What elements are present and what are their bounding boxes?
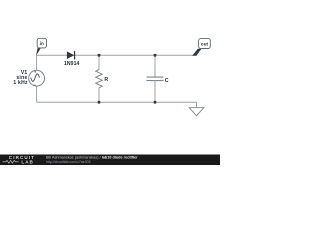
wire left vertical to V1 (36, 55, 38, 70)
svg-text:out: out (201, 41, 209, 46)
CircuitLab logo (3, 155, 36, 165)
svg-text:1N914: 1N914 (64, 61, 80, 67)
ground (189, 102, 204, 116)
net flag in (36, 38, 47, 55)
svg-text:Bill Ashmanskas (ashmanskas) /: Bill Ashmanskas (ashmanskas) / lab10 dio… (46, 156, 138, 160)
svg-text:LAB: LAB (21, 160, 33, 165)
diode D1 1N914 (67, 51, 75, 60)
svg-text:C: C (165, 78, 169, 84)
svg-text:http://circuitlab.com/c7ae305: http://circuitlab.com/c7ae305 (46, 160, 91, 164)
label V1 sine 1 kHz (13, 70, 28, 86)
junction capacitor top (154, 54, 157, 57)
junction resistor top (98, 54, 101, 57)
svg-text:R: R (104, 77, 108, 83)
wire top rail (node out) (37, 54, 196, 56)
net flag out (192, 39, 210, 56)
junction resistor bottom (98, 101, 101, 104)
svg-text:in: in (40, 41, 44, 46)
voltage source V1 (sine) (29, 70, 45, 86)
wire V1 bottom to ground rail (36, 86, 38, 102)
svg-text:1 kHz: 1 kHz (13, 80, 28, 86)
capacitor C (147, 55, 164, 102)
wire bottom ground rail (37, 101, 197, 103)
resistor R (96, 55, 102, 102)
watermark bar (0, 155, 220, 166)
junction capacitor bottom (154, 101, 157, 104)
